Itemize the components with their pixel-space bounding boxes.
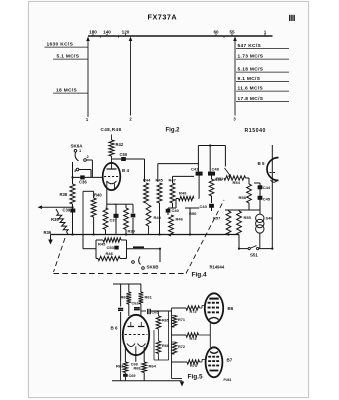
- wires resistor bottoms: [159, 203, 161, 235]
- wire B5 right down: [271, 191, 273, 249]
- tube B4: [103, 163, 121, 190]
- capacitor C38: [126, 203, 133, 205]
- resistor R38: [70, 184, 75, 204]
- svg-text:R54: R54: [233, 180, 241, 185]
- resistor R57: [226, 211, 231, 235]
- svg-text:C69: C69: [129, 374, 136, 378]
- wire R55 down to switch line: [238, 235, 240, 249]
- capacitor C50: [112, 158, 145, 160]
- svg-text:5.1 MC/S: 5.1 MC/S: [57, 54, 80, 60]
- svg-text:S51: S51: [250, 253, 258, 258]
- capacitor C40 mid: [166, 209, 171, 213]
- bus junction dots: [71, 233, 73, 235]
- fig2 minor ticks: [100, 36, 102, 38]
- svg-text:R38: R38: [60, 192, 68, 197]
- svg-text:R50: R50: [189, 211, 197, 216]
- ground symbol: [50, 235, 52, 240]
- ground bus wire: [51, 234, 240, 236]
- resistor R49 (horizontal): [179, 196, 195, 200]
- resistor R54 (horizontal): [224, 176, 246, 180]
- svg-text:C45: C45: [263, 197, 271, 202]
- svg-text:R73: R73: [190, 310, 197, 314]
- fig5 bottom rail: [112, 380, 182, 382]
- B6 grid dashed: [125, 334, 148, 336]
- capacitor C37: [107, 203, 116, 205]
- svg-text:C36: C36: [79, 180, 87, 185]
- capacitor C43: [209, 204, 214, 208]
- decoupling box R45/C53/R46: [82, 235, 84, 249]
- B6 cathodes: [127, 344, 135, 347]
- svg-text:R61: R61: [145, 295, 153, 300]
- resistor R40: [83, 190, 94, 192]
- B4 cathode: [107, 181, 117, 184]
- wire switch pole down: [72, 162, 74, 184]
- svg-text:R65: R65: [162, 319, 169, 323]
- dashed boundary horizontal: [54, 273, 187, 275]
- wire R38 to bus: [72, 204, 74, 235]
- rail mid: [158, 163, 199, 165]
- wire v1: [197, 146, 199, 172]
- svg-text:R60: R60: [121, 295, 129, 300]
- wire switch contact2: [86, 159, 92, 161]
- svg-text:C44: C44: [263, 185, 271, 190]
- svg-text:120: 120: [122, 29, 130, 34]
- svg-text:11.6 MC/S: 11.6 MC/S: [238, 86, 264, 92]
- capacitor C48: [208, 172, 215, 176]
- svg-text:R66: R66: [162, 344, 169, 348]
- B4 plate: [107, 168, 117, 170]
- svg-text:C62: C62: [132, 302, 139, 306]
- resistor R55: [237, 211, 242, 235]
- capacitor C63: [118, 308, 123, 310]
- B6 plates: [128, 326, 135, 328]
- switch S51: [239, 248, 248, 250]
- svg-text:R55: R55: [244, 215, 252, 220]
- svg-text:180: 180: [89, 29, 97, 34]
- svg-text:C37: C37: [110, 218, 118, 223]
- dashed boundary diagonal left: [54, 238, 66, 272]
- potentiometer R52 wiper: [224, 146, 226, 167]
- wire R54 right: [246, 177, 250, 179]
- svg-text:17.8 MC/S: 17.8 MC/S: [238, 96, 264, 102]
- off-page arrow (AVC): [38, 205, 43, 209]
- svg-text:R71: R71: [178, 318, 185, 322]
- svg-text:R72: R72: [178, 345, 185, 349]
- svg-text:R45: R45: [98, 241, 106, 246]
- svg-text:R39: R39: [128, 229, 136, 234]
- svg-text:55: 55: [229, 29, 235, 34]
- wires mid network: [153, 330, 155, 360]
- inductor S46: [256, 214, 264, 222]
- valve socket B6: [205, 293, 223, 323]
- capacitor C64: [141, 310, 146, 312]
- svg-text:R64: R64: [149, 364, 157, 369]
- svg-text:R68: R68: [134, 367, 141, 371]
- svg-text:18 MC/S: 18 MC/S: [56, 88, 78, 94]
- wire v2: [209, 146, 211, 172]
- svg-text:B 4: B 4: [122, 168, 130, 173]
- hline mid right: [225, 209, 260, 211]
- fig2 pointer line 3: [234, 39, 236, 116]
- resistor R65: [158, 311, 160, 316]
- B6 pin wires: [124, 347, 126, 362]
- svg-text:2: 2: [87, 154, 90, 159]
- svg-text:C50: C50: [120, 152, 128, 157]
- wire fig5 top to sockets: [209, 347, 211, 349]
- svg-text:R74: R74: [190, 337, 198, 341]
- resistor R72: [172, 342, 177, 354]
- resistor R42: [111, 156, 113, 163]
- wire switch contact3: [79, 169, 91, 171]
- resistor R35 (diagonal): [57, 214, 68, 232]
- resistor R64: [142, 362, 147, 373]
- svg-text:Fig.5: Fig.5: [188, 374, 204, 381]
- svg-text:B7: B7: [227, 358, 233, 363]
- resistor R63: [123, 362, 128, 373]
- svg-text:R58: R58: [239, 195, 247, 200]
- svg-text:2: 2: [129, 117, 132, 122]
- svg-text:C39: C39: [63, 208, 71, 213]
- capacitor C45: [258, 196, 263, 200]
- tube B6 (double triode): [123, 315, 149, 355]
- svg-text:C48: C48: [212, 166, 220, 171]
- svg-text:R43: R43: [154, 215, 162, 220]
- fig2 scale line: [88, 35, 273, 37]
- dashed boundary diagonal right: [186, 200, 224, 274]
- svg-text:R75: R75: [190, 364, 197, 368]
- svg-text:R46: R46: [106, 251, 114, 256]
- svg-text:Fig.2: Fig.2: [166, 128, 181, 134]
- resistor R60: [128, 284, 130, 292]
- svg-text:60: 60: [213, 29, 219, 34]
- resistor R53: [209, 179, 214, 196]
- wire C50 down: [144, 159, 146, 182]
- svg-text:9.1 MC/S: 9.1 MC/S: [238, 76, 261, 82]
- resistor R58: [247, 184, 252, 203]
- svg-text:PU61: PU61: [224, 378, 232, 382]
- svg-text:1: 1: [79, 148, 82, 153]
- svg-text:C48,R48: C48,R48: [101, 127, 122, 132]
- svg-text:Fig.4: Fig.4: [192, 272, 208, 279]
- svg-text:C43: C43: [200, 204, 208, 209]
- svg-text:140: 140: [103, 29, 111, 34]
- svg-text:R40: R40: [94, 193, 102, 198]
- resistor R46: [169, 215, 174, 236]
- B4 grid (dashed): [104, 176, 119, 178]
- svg-text:B 6: B 6: [111, 326, 119, 331]
- svg-text:R45: R45: [156, 178, 164, 183]
- svg-text:R42: R42: [116, 142, 124, 147]
- resistor R74 (mid): [172, 334, 187, 336]
- wire coil bottom: [259, 233, 261, 249]
- resistor R61: [140, 284, 142, 292]
- svg-text:1.73 MC/S: 1.73 MC/S: [238, 54, 264, 60]
- svg-text:3: 3: [233, 117, 236, 122]
- resistor R39: [115, 203, 127, 205]
- resistor R73 (to B6 socket): [172, 307, 187, 309]
- resistor R50 line: [189, 208, 191, 235]
- svg-text:SK6A: SK6A: [71, 144, 84, 149]
- wire box to SK6B: [127, 248, 161, 250]
- svg-text:R14944: R14944: [210, 265, 225, 270]
- ground fig5: [180, 382, 184, 387]
- capacitor C36: [73, 176, 104, 178]
- resistor R75 (to B7 socket): [172, 361, 188, 363]
- svg-text:547 KC/S: 547 KC/S: [238, 43, 262, 49]
- svg-text:R49: R49: [179, 191, 187, 196]
- fig5 left rail: [171, 308, 173, 379]
- capacitor C44: [259, 185, 261, 214]
- capacitor C69: [123, 374, 128, 377]
- svg-text:B6: B6: [228, 306, 234, 311]
- resistor R71: [172, 316, 177, 328]
- svg-text:1: 1: [86, 117, 89, 122]
- capacitor C42: [196, 172, 203, 176]
- svg-text:B 5: B 5: [258, 161, 266, 166]
- page number III: [289, 15, 291, 21]
- svg-text:C53: C53: [107, 245, 115, 250]
- svg-text:FX737A: FX737A: [148, 13, 178, 22]
- capacitor C39: [70, 209, 75, 213]
- right block top rail: [198, 145, 225, 147]
- svg-text:R63: R63: [116, 364, 124, 369]
- B4 pin wires: [106, 190, 108, 208]
- svg-text:1: 1: [264, 29, 267, 34]
- svg-text:R35: R35: [51, 217, 59, 222]
- fig5 top rail: [113, 283, 141, 285]
- svg-text:C40: C40: [172, 208, 180, 213]
- svg-text:R15040: R15040: [245, 128, 266, 134]
- svg-text:5.18 MC/S: 5.18 MC/S: [238, 67, 264, 73]
- svg-text:SK6B: SK6B: [147, 265, 160, 270]
- svg-text:R46: R46: [176, 217, 184, 222]
- svg-text:R51: R51: [216, 176, 224, 181]
- resistor R41: [103, 208, 108, 230]
- fig2 pointer line 2: [130, 39, 132, 116]
- svg-text:C41: C41: [191, 166, 199, 171]
- fig2 pointer line 1: [87, 39, 89, 117]
- resistor R66: [156, 341, 161, 354]
- switch SK6B: [132, 261, 135, 264]
- valve socket B7: [206, 347, 223, 377]
- svg-text:R44: R44: [143, 178, 151, 183]
- wire B6-B7: [209, 323, 211, 347]
- svg-text:1630 KC/S: 1630 KC/S: [47, 42, 74, 48]
